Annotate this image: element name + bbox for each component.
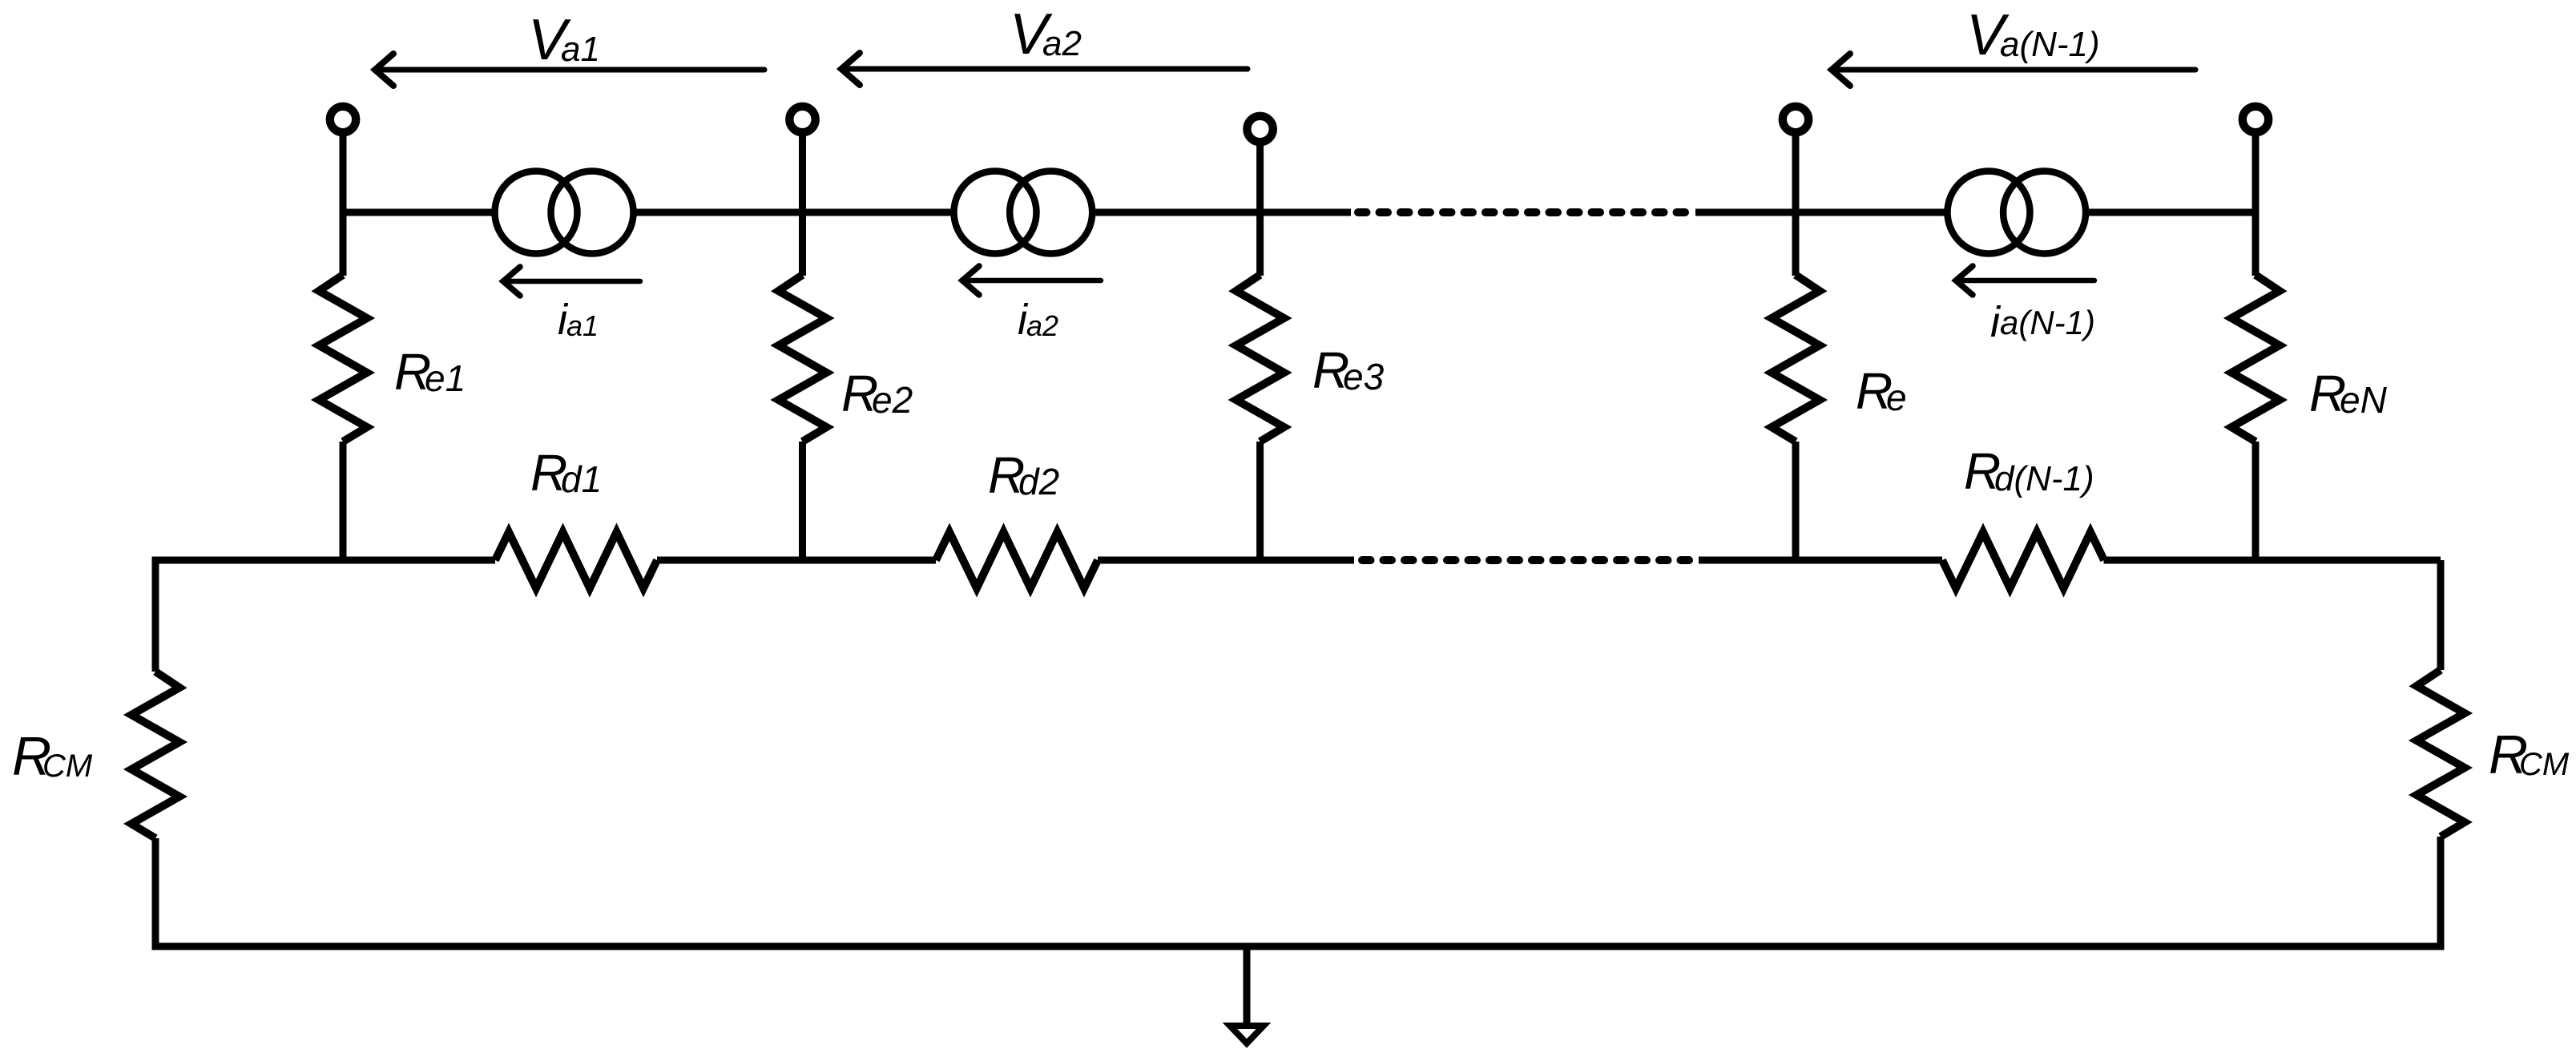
svg-text:a(N-1): a(N-1) <box>2000 25 2100 64</box>
current source ia1 <box>495 171 634 254</box>
resistor RCM right <box>2417 670 2465 837</box>
terminal node 4 <box>1783 107 1808 132</box>
label Va2 <box>1010 2 1082 67</box>
mid bus wire left <box>343 557 495 564</box>
current arrow ia(N-1) <box>1956 266 2094 295</box>
resistor Rd(N-1) <box>1942 532 2104 588</box>
wire top segment 3 <box>1095 209 1351 216</box>
mid bus wire segment 2 <box>657 557 936 564</box>
current arrow ia1 <box>503 267 640 296</box>
resistor Re2 <box>779 275 827 442</box>
wire Re3 to mid bus <box>1256 442 1264 560</box>
wire top segment 4 <box>1695 209 1945 216</box>
label RCM right <box>2489 724 2570 785</box>
label Re1 <box>394 343 466 401</box>
wire Re2 to mid bus <box>799 442 806 560</box>
wire top segment 5 <box>2089 209 2256 216</box>
svg-text:a1: a1 <box>561 30 600 69</box>
label Rd1 <box>530 444 602 502</box>
wire Re to mid bus <box>1792 442 1800 560</box>
label ia2 <box>1018 296 1058 344</box>
resistor Re3 <box>1236 275 1284 442</box>
bottom bus wire <box>155 943 2441 947</box>
wire column 4 (terminal 4 to Re) <box>1792 132 1800 276</box>
wire top segment 2 <box>637 209 951 216</box>
wire RCM right to bottom bus <box>2437 837 2445 946</box>
svg-text:e2: e2 <box>872 379 913 421</box>
resistor ReN <box>2231 275 2280 442</box>
current source ia(N-1) <box>1948 171 2086 254</box>
svg-text:d2: d2 <box>1018 461 1059 502</box>
label Re3 <box>1312 341 1385 399</box>
current arrow ia2 <box>962 266 1101 295</box>
resistor Rd1 <box>495 532 657 588</box>
label Rd(N-1) <box>1964 442 2094 500</box>
svg-text:a1: a1 <box>566 309 599 342</box>
terminal node 3 <box>1247 116 1272 142</box>
label ia(N-1) <box>1990 298 2095 346</box>
wire RCM left to bottom bus <box>152 838 159 946</box>
terminal node 5 <box>2243 107 2268 132</box>
wire Re1 to mid bus <box>340 442 347 560</box>
label Rd2 <box>988 446 1059 504</box>
svg-text:CM: CM <box>42 748 93 784</box>
resistor RCM left <box>131 672 179 838</box>
label Va1 <box>528 8 600 72</box>
voltage arrow Va2 <box>841 53 1248 85</box>
wire column 5 (terminal 5 to ReN) <box>2252 132 2260 276</box>
svg-text:CM: CM <box>2519 747 2570 782</box>
resistor Re1 <box>319 275 367 442</box>
svg-text:a2: a2 <box>1042 24 1082 63</box>
mid bus wire segment 3 <box>1098 557 1354 564</box>
svg-text:e: e <box>1886 377 1907 418</box>
svg-text:d1: d1 <box>561 458 602 500</box>
wire mid bus to RCM right <box>2437 560 2445 670</box>
resistor Re <box>1772 275 1820 442</box>
label RCM left <box>12 726 93 787</box>
terminal node 2 <box>789 107 815 132</box>
wire top segment 1 <box>343 209 492 216</box>
resistor Rd2 <box>936 532 1098 588</box>
terminal node 1 <box>330 107 356 132</box>
voltage arrow Va1 <box>375 54 764 86</box>
label Re2 <box>841 365 913 422</box>
mid bus wire segment 5 <box>2104 557 2441 564</box>
wire column 2 (terminal 2 to Re2) <box>799 132 806 276</box>
wire mid bus to RCM left <box>152 560 159 672</box>
svg-text:e3: e3 <box>1343 356 1385 397</box>
svg-text:a(N-1): a(N-1) <box>2000 304 2095 341</box>
wire column 1 (terminal 1 to Re1) <box>340 132 347 276</box>
wire top dashed continuation <box>1358 208 1695 216</box>
current source ia2 <box>954 171 1093 254</box>
wire column 3 (terminal 3 to Re3) <box>1256 142 1264 276</box>
svg-text:e1: e1 <box>425 357 466 399</box>
label ReN <box>2309 365 2388 422</box>
label ia1 <box>558 296 599 344</box>
svg-text:a2: a2 <box>1026 309 1058 342</box>
label Va(N-1) <box>1966 3 2100 67</box>
label Re <box>1856 362 1907 420</box>
wire ReN to mid bus <box>2252 442 2260 560</box>
voltage arrow Va(N-1) <box>1832 54 2195 86</box>
mid bus dashed continuation <box>1362 556 1699 564</box>
svg-text:eN: eN <box>2340 379 2388 421</box>
mid bus wire segment 4 <box>1699 557 1942 564</box>
ground <box>1230 946 1264 1043</box>
svg-text:d(N-1): d(N-1) <box>1994 459 2094 498</box>
